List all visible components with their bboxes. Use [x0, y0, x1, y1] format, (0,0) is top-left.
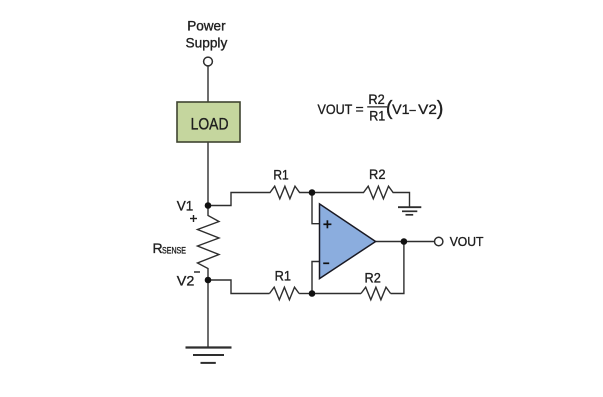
svg-text:Power: Power: [187, 17, 226, 33]
svg-text:R1: R1: [273, 167, 288, 183]
svg-text:R2: R2: [369, 166, 386, 182]
svg-text:=: =: [356, 101, 364, 117]
svg-text:LOAD: LOAD: [191, 115, 229, 134]
svg-text:–: –: [410, 101, 416, 117]
svg-text:Supply: Supply: [186, 35, 228, 51]
svg-text:V2: V2: [177, 273, 195, 289]
svg-text:V1: V1: [177, 198, 194, 214]
svg-text:V1: V1: [392, 101, 410, 117]
svg-text:R1: R1: [369, 107, 385, 123]
svg-text:R2: R2: [368, 91, 385, 107]
svg-text:V2: V2: [418, 101, 437, 117]
svg-text:VOUT: VOUT: [450, 234, 484, 249]
svg-text:R1: R1: [275, 268, 292, 284]
svg-text:R2: R2: [365, 270, 381, 286]
svg-text:SENSE: SENSE: [162, 246, 186, 256]
svg-text:): ): [437, 98, 444, 120]
svg-text:VOUT: VOUT: [318, 101, 353, 117]
